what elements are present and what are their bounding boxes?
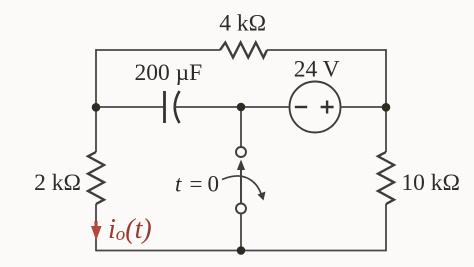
wire top left (96, 49, 220, 51)
wire middle left (96, 106, 164, 108)
node B center middle (237, 103, 246, 112)
resistor R2 2 kOhm (88, 152, 104, 204)
voltage source V1 24 V (290, 82, 341, 133)
wire middle center (175, 106, 290, 108)
svg-text:4 kΩ: 4 kΩ (219, 11, 266, 37)
wire left vertical upper (95, 49, 97, 152)
svg-text:200 µF: 200 µF (135, 60, 203, 86)
wire right vertical lower (385, 204, 387, 251)
wire right vertical upper (385, 49, 387, 152)
resistor R3 10 kOhm (378, 152, 394, 204)
wire top right (267, 49, 386, 51)
wire middle right (341, 106, 387, 108)
svg-text:io(t): io(t) (108, 214, 152, 245)
wire left vertical lower (95, 204, 97, 251)
node D bottom center (237, 246, 246, 255)
resistor R1 4 kOhm (220, 43, 267, 58)
current arrow io(t) red (91, 221, 102, 241)
node A left middle (92, 103, 101, 112)
switch motion arrow (222, 176, 266, 201)
capacitor C1 200 uF (165, 91, 180, 123)
svg-text:2 kΩ: 2 kΩ (34, 170, 81, 196)
svg-text:10 kΩ: 10 kΩ (401, 170, 460, 196)
svg-text:24 V: 24 V (294, 56, 340, 82)
switch SW1 (236, 107, 246, 251)
node C right middle (382, 103, 391, 112)
wire bottom (96, 250, 386, 252)
svg-text:t=0: t=0 (175, 172, 219, 197)
